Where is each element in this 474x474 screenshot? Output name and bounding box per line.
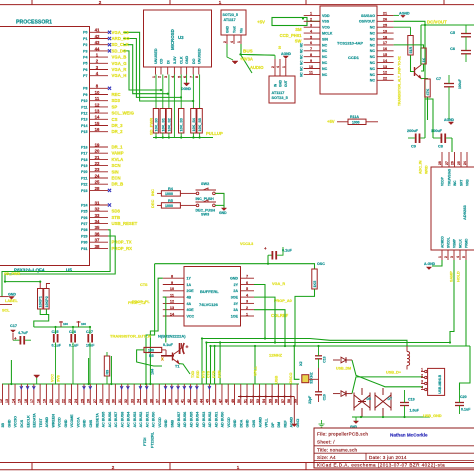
svg-text:NC: NC — [370, 43, 376, 47]
FT232RL pin 30 AC BUS7 — [114, 384, 116, 405]
svg-text:VCG: VCG — [322, 26, 330, 30]
svg-text:AGND: AGND — [258, 417, 262, 428]
svg-text:GND: GND — [230, 277, 238, 281]
svg-text:CTS: CTS — [207, 370, 211, 378]
svg-text:21: 21 — [95, 155, 100, 160]
TVS diode D7 — [375, 393, 391, 411]
svg-text:TCS1310-4AP: TCS1310-4AP — [337, 41, 363, 46]
svg-text:KiCad E.D.A. eeschema (2013-0: KiCad E.D.A. eeschema (2013-07-07 BZR 40… — [317, 462, 445, 467]
wire SW2/SW3 to ground — [215, 193, 224, 205]
svg-text:GND: GND — [83, 419, 87, 427]
svg-text:NC: NC — [322, 55, 328, 59]
svg-text:DP: DP — [271, 422, 275, 428]
push button SW3 DEC_PUSH — [196, 204, 199, 207]
processor U5 body P8X32A-LQF44 — [0, 27, 90, 266]
svg-text:47K: 47K — [426, 88, 430, 95]
svg-text:GND: GND — [233, 419, 237, 427]
svg-text:1: 1 — [246, 312, 248, 316]
wire vertical drop x=255 — [254, 346, 256, 384]
svg-text:CD: CD — [160, 58, 164, 64]
capacitor C13 22pF — [315, 355, 322, 357]
svg-text:P15: P15 — [81, 130, 87, 134]
svg-text:AC BUS3: AC BUS3 — [133, 412, 137, 428]
svg-text:10K_S5: 10K_S5 — [198, 118, 202, 131]
svg-text:9: 9 — [310, 59, 312, 63]
svg-text:INC: INC — [453, 180, 457, 186]
svg-text:3V3: 3V3 — [57, 375, 61, 382]
svg-text:2: 2 — [157, 76, 161, 78]
FT232RL pin 35 AC BUS1 — [146, 384, 148, 405]
FT232RL pin 59 OSCI — [296, 384, 298, 405]
wire from processor pin y=50.9 to microSD column x=161.0 — [123, 51, 161, 90]
svg-text:VDD: VDD — [322, 14, 330, 18]
svg-text:AGND: AGND — [45, 417, 49, 428]
svg-text:3.3V: 3.3V — [173, 56, 177, 64]
svg-text:CCD1: CCD1 — [348, 55, 360, 60]
wire vertical drop x=220.1 — [219, 343, 221, 385]
svg-text:16: 16 — [95, 127, 100, 132]
svg-text:NC: NC — [370, 73, 376, 77]
svg-text:P1: P1 — [83, 37, 87, 41]
svg-text:P13: P13 — [81, 118, 87, 122]
ADC top pin INC — [454, 152, 456, 167]
svg-text:2: 2 — [246, 306, 248, 310]
svg-text:LABEL: LABEL — [5, 299, 18, 303]
wire C17 up flag — [12, 333, 14, 340]
svg-text:42: 42 — [187, 399, 191, 403]
svg-text:AC BUS1: AC BUS1 — [145, 412, 149, 428]
svg-text:NC: NC — [370, 37, 376, 41]
svg-text:SRT: SRT — [460, 180, 464, 186]
svg-text:38: 38 — [95, 244, 100, 249]
svg-text:2: 2 — [444, 256, 448, 258]
svg-text:P29: P29 — [81, 234, 87, 238]
svg-text:11: 11 — [95, 96, 100, 101]
svg-text:C6: C6 — [450, 47, 455, 51]
svg-text:BUS: BUS — [243, 49, 253, 54]
svg-text:25: 25 — [383, 24, 387, 28]
FT232RL pin 24 VCCA — [77, 384, 79, 405]
svg-text:PRMD: PRMD — [465, 238, 469, 248]
FT232RL pin 36 AC BUS0 — [152, 384, 154, 405]
svg-text:PROCESSOR1: PROCESSOR1 — [16, 20, 52, 26]
svg-text:45: 45 — [206, 399, 210, 403]
svg-text:ECN: ECN — [112, 176, 121, 181]
svg-text:RTS: RTS — [202, 370, 206, 378]
wire from P28 to left routing — [2, 230, 110, 297]
svg-text:54: 54 — [262, 399, 266, 403]
svg-text:COLREF: COLREF — [271, 313, 289, 318]
pull-up resistor R20 10K — [155, 75, 157, 109]
FT232RL pin 17 EEDATA — [33, 384, 35, 405]
svg-text:FTDI: FTDI — [143, 438, 147, 446]
svg-text:17: 17 — [383, 41, 387, 45]
svg-text:ARD_DO: ARD_DO — [112, 36, 131, 41]
pull-up resistor R21 10K — [162, 75, 164, 109]
wire from processor pin y=44.7 to microSD column x=167.7 — [123, 45, 168, 94]
svg-text:2Y: 2Y — [234, 283, 239, 287]
TVS diode D6 — [354, 393, 370, 411]
svg-text:0.1uF: 0.1uF — [163, 343, 174, 347]
ground flag bottom middle — [292, 424, 297, 427]
wire buffer right pin4 step — [254, 297, 275, 342]
svg-text:P6: P6 — [83, 68, 87, 72]
svg-text:DR_2: DR_2 — [112, 129, 124, 134]
svg-text:D6: D6 — [367, 397, 371, 401]
wire USB data diagonal 1 — [352, 360, 423, 387]
svg-text:P31: P31 — [81, 247, 87, 251]
ground symbol above title block — [319, 420, 325, 427]
svg-text:C20: C20 — [460, 395, 467, 399]
svg-text:OUT: OUT — [284, 80, 288, 87]
svg-text:100: 100 — [81, 322, 86, 326]
svg-text:NC: NC — [299, 48, 303, 53]
svg-text:P27: P27 — [81, 222, 87, 226]
wire USB data diagonal 2 — [352, 377, 423, 394]
svg-text:+: + — [186, 345, 189, 351]
svg-text:AC BUS0: AC BUS0 — [152, 412, 156, 428]
svg-text:2A: 2A — [233, 289, 238, 293]
svg-text:VGA_B: VGA_B — [112, 55, 127, 60]
svg-text:25: 25 — [95, 180, 100, 185]
svg-text:100uF: 100uF — [458, 79, 462, 89]
resistor R9 vertical — [104, 356, 109, 376]
svg-text:33: 33 — [130, 399, 134, 403]
svg-text:20: 20 — [49, 399, 53, 403]
inductor L2 — [407, 346, 410, 366]
svg-text:23: 23 — [68, 399, 72, 403]
svg-text:10KP1: 10KP1 — [39, 296, 43, 307]
svg-text:1: 1 — [438, 256, 442, 258]
svg-text:SD8: SD8 — [112, 209, 121, 214]
resistor R1 10K — [39, 282, 41, 289]
ADC bottom pin NCLK — [459, 250, 461, 260]
svg-text:43: 43 — [95, 40, 100, 45]
svg-text:DO: DO — [192, 58, 196, 64]
voltage regulator U2 AT1117 body — [269, 76, 295, 103]
svg-text:SCN: SCN — [112, 163, 121, 168]
svg-text:1: 1 — [237, 41, 241, 43]
svg-text:INC: INC — [150, 189, 155, 196]
svg-text:AC BUS6: AC BUS6 — [108, 412, 112, 428]
regulator U2 pin IN — [274, 59, 276, 76]
small diode D5 — [333, 393, 340, 395]
wire inductor top — [405, 340, 407, 346]
svg-text:P4: P4 — [83, 56, 87, 60]
svg-text:P7: P7 — [83, 74, 87, 78]
svg-text:1000: 1000 — [165, 204, 173, 208]
svg-text:D7: D7 — [388, 397, 392, 401]
wire to R12 — [268, 264, 315, 269]
svg-text:P28: P28 — [81, 228, 87, 232]
junction dots on red net — [240, 396, 242, 398]
svg-text:VSS: VSS — [322, 20, 330, 24]
svg-text:CTS: CTS — [140, 283, 148, 287]
resistor R12 1K5 — [312, 269, 317, 289]
USB interface chip FT232RL main bus wire — [2, 383, 299, 385]
svg-text:C25: C25 — [52, 330, 59, 334]
svg-text:C26: C26 — [69, 330, 76, 334]
svg-text:BUFFERL: BUFFERL — [200, 289, 219, 294]
wire vertical drop x=210.5 — [210, 346, 212, 384]
svg-text:AD BUS6: AD BUS6 — [183, 412, 187, 428]
svg-text:4.7uF: 4.7uF — [18, 331, 29, 335]
svg-text:P10: P10 — [81, 99, 87, 103]
svg-text:4: 4 — [421, 385, 423, 389]
svg-text:26: 26 — [383, 18, 387, 22]
ADC top pin VRB — [466, 152, 468, 167]
title block row line 2 — [314, 452, 474, 454]
svg-text:SW3: SW3 — [201, 212, 209, 216]
FT232RL pin 29 AC BUS6 — [108, 384, 110, 405]
svg-text:19: 19 — [43, 399, 47, 403]
sheet top border tick x=306 — [305, 0, 307, 5]
svg-text:100: 100 — [148, 349, 154, 353]
svg-text:36: 36 — [95, 231, 100, 236]
no-connect mark on P1 — [108, 37, 111, 40]
svg-text:VCC: VCC — [187, 314, 195, 318]
svg-text:AGND: AGND — [290, 417, 294, 428]
svg-text:CNS: CNS — [252, 419, 256, 427]
DGND flag on microSD GND pin — [186, 75, 188, 84]
svg-text:C13: C13 — [323, 356, 327, 362]
wire red horizontal through FT pins — [238, 396, 294, 398]
svg-text:P18: P18 — [81, 158, 87, 162]
svg-text:DGND: DGND — [181, 87, 192, 91]
svg-text:5: 5 — [246, 287, 248, 291]
svg-text:SW2: SW2 — [201, 182, 209, 186]
svg-text:DM: DM — [277, 422, 281, 428]
svg-text:74LVC126: 74LVC126 — [199, 302, 219, 307]
USB connector pin 2 — [425, 376, 427, 378]
svg-text:NC: NC — [299, 54, 303, 59]
wire stub left edge 2 — [0, 304, 12, 306]
svg-text:OSC: OSC — [317, 262, 325, 266]
svg-text:AD9283: AD9283 — [462, 205, 467, 220]
svg-text:10K_S3: 10K_S3 — [180, 118, 184, 131]
FT232RL pin 44 AD BUS3 — [202, 384, 204, 405]
resistor R17 — [394, 45, 424, 48]
svg-text:10KP2: 10KP2 — [45, 296, 49, 307]
svg-text:P16: P16 — [81, 145, 87, 149]
sheet top border tick x=32 — [31, 0, 33, 5]
svg-text:18: 18 — [36, 399, 40, 403]
svg-text:GND: GND — [7, 419, 11, 427]
svg-text:AC BUS4: AC BUS4 — [127, 412, 131, 428]
svg-text:13: 13 — [170, 306, 174, 310]
wire long net y=342.5 — [206, 342, 450, 344]
wire T1 collector up to cap — [179, 343, 182, 351]
svg-text:31: 31 — [95, 200, 100, 205]
FT232RL pin 49 GND — [233, 384, 235, 405]
svg-text:23: 23 — [95, 167, 100, 172]
svg-text:+3V3A: +3V3A — [240, 57, 253, 62]
svg-text:AT1117: AT1117 — [272, 91, 285, 95]
svg-text:SCL: SCL — [2, 309, 10, 313]
svg-text:VCCA: VCCA — [76, 417, 80, 428]
svg-text:22: 22 — [95, 161, 100, 166]
svg-text:AT1117: AT1117 — [224, 18, 236, 22]
svg-text:51: 51 — [243, 399, 247, 403]
svg-text:INC_PUSH: INC_PUSH — [196, 197, 215, 201]
svg-text:4: 4 — [456, 256, 460, 258]
svg-text:10K_S2: 10K_S2 — [167, 118, 171, 131]
wire R18 bottom down — [427, 97, 429, 120]
svg-text:34: 34 — [137, 399, 141, 403]
sheet top border tick x=444 — [443, 0, 445, 5]
wire crystal right — [309, 368, 319, 379]
svg-text:AUDIO: AUDIO — [250, 65, 264, 70]
wire vertical drop x=202 — [201, 339, 203, 385]
svg-text:AD BUS2: AD BUS2 — [208, 412, 212, 428]
svg-text:P9: P9 — [83, 93, 87, 97]
svg-text:P24: P24 — [81, 203, 87, 207]
svg-text:VGA_G: VGA_G — [112, 61, 128, 66]
svg-text:36: 36 — [149, 399, 153, 403]
svg-text:7: 7 — [310, 47, 312, 51]
svg-text:SCL_WEIG: SCL_WEIG — [112, 111, 135, 116]
svg-text:48: 48 — [225, 399, 229, 403]
svg-text:24: 24 — [74, 399, 78, 403]
svg-text:PULLUP: PULLUP — [206, 131, 223, 136]
svg-text:R11A: R11A — [350, 115, 359, 119]
svg-text:15: 15 — [383, 53, 387, 57]
svg-text:44: 44 — [199, 399, 203, 403]
ground flag on bus — [34, 375, 40, 378]
svg-text:10: 10 — [95, 90, 100, 95]
no-connect mark on P8 — [108, 87, 111, 90]
svg-text:RXD: RXD — [196, 370, 200, 378]
svg-text:VCC3.3: VCC3.3 — [240, 242, 253, 246]
svg-text:22pF: 22pF — [308, 396, 312, 404]
svg-text:STB: STB — [112, 215, 121, 220]
svg-text:49: 49 — [231, 399, 235, 403]
svg-text:USB: USB — [275, 375, 279, 383]
USB connector pin 1 — [425, 370, 427, 372]
FT232RL pin 47 AD BUS0 — [221, 384, 223, 405]
svg-text:DTR: DTR — [212, 370, 216, 378]
wire ADC pin5 down — [466, 260, 470, 346]
svg-text:P21: P21 — [81, 176, 87, 180]
svg-text:8: 8 — [171, 275, 173, 279]
regulator U2 pin GND — [279, 59, 281, 76]
svg-text:27: 27 — [93, 399, 97, 403]
svg-text:C10: C10 — [323, 394, 327, 400]
svg-text:AC BUS7: AC BUS7 — [114, 412, 118, 428]
FT232RL pin 43 AD BUS4 — [196, 384, 198, 405]
svg-text:AD BUS0: AD BUS0 — [221, 412, 225, 428]
svg-text:4: 4 — [230, 41, 234, 43]
svg-text:NC: NC — [370, 32, 376, 36]
svg-text:35: 35 — [143, 399, 147, 403]
svg-text:1K: 1K — [422, 57, 426, 62]
ADC top pin SRT — [460, 152, 462, 167]
wire crystal branch — [294, 346, 299, 379]
FT232RL pin 18 TEST — [39, 384, 41, 405]
svg-text:P11: P11 — [81, 105, 87, 109]
svg-text:VCCIO: VCCIO — [14, 416, 18, 428]
svg-text:VPLL: VPLL — [265, 418, 269, 428]
FT232RL pin 12 3B — [2, 384, 4, 405]
svg-text:VCOME: VCOME — [70, 414, 74, 428]
svg-text:1N4: 1N4 — [151, 369, 155, 375]
FT232RL pin 51 GND — [246, 384, 248, 405]
USB connector pin 3 — [425, 382, 427, 384]
svg-text:P20: P20 — [81, 170, 87, 174]
FT232RL pin 15 DCS — [20, 384, 22, 405]
sheet top border tick x=170 — [169, 0, 171, 5]
svg-text:10K_S4: 10K_S4 — [192, 117, 196, 131]
svg-text:6: 6 — [246, 281, 248, 285]
svg-text:52: 52 — [250, 399, 254, 403]
svg-text:1A: 1A — [187, 283, 192, 287]
svg-text:SD_PWR: SD_PWR — [4, 272, 21, 276]
svg-text:VDDP: VDDP — [441, 176, 445, 186]
svg-text:S: S — [278, 45, 281, 50]
wire buffer pin4 left — [163, 297, 166, 342]
svg-text:17: 17 — [30, 399, 34, 403]
FT232RL pin 16 EECLK — [27, 384, 29, 405]
svg-text:NC: NC — [299, 66, 303, 71]
FT232RL pin 34 AC BUS2 — [139, 384, 141, 405]
ADC bottom pin VSMP — [453, 250, 455, 260]
svg-text:DR_1: DR_1 — [112, 145, 124, 150]
svg-text:P26: P26 — [81, 216, 87, 220]
svg-text:VGA_R: VGA_R — [112, 67, 128, 72]
wire ADC pin3 down to horizontal net — [450, 260, 454, 343]
svg-text:ADC_IN: ADC_IN — [419, 160, 423, 174]
svg-text:UNUSED: UNUSED — [197, 48, 201, 64]
no-connect mark on P24 — [108, 203, 111, 206]
wire bus rise x=11.4 — [10, 360, 12, 384]
sheet bottom border tick x=32 — [31, 463, 33, 470]
wire stub left edge 1 — [0, 296, 9, 298]
svg-text:USB_GND: USB_GND — [423, 414, 442, 418]
FT232RL pin 42 AD BUS5 — [190, 384, 192, 405]
svg-text:USB_RESET: USB_RESET — [112, 221, 138, 226]
wire long net y=338.5 — [202, 339, 405, 341]
svg-text:10nF: 10nF — [86, 344, 95, 348]
svg-text:R5: R5 — [149, 354, 154, 358]
svg-text:VRB: VRB — [466, 179, 470, 186]
sheet bottom border tick x=306 — [305, 463, 307, 470]
ADC bottom pin PRMD — [465, 250, 467, 260]
svg-text:SOT23_5: SOT23_5 — [272, 96, 288, 100]
wire bus rise x=111.4 — [110, 356, 112, 384]
svg-text:44: 44 — [95, 46, 100, 51]
svg-text:5: 5 — [310, 35, 312, 39]
polarity mark 1 — [59, 321, 63, 327]
buffer U4 74LVC126 body — [184, 267, 241, 327]
FT232RL pin 56 DM — [277, 384, 279, 405]
svg-text:VCCD: VCCD — [58, 417, 62, 428]
svg-text:SM: SM — [295, 27, 302, 32]
svg-text:A-GND: A-GND — [424, 262, 436, 266]
svg-text:0.1uF: 0.1uF — [282, 249, 293, 253]
svg-text:REF: REF — [283, 420, 287, 428]
svg-text:10K_S1: 10K_S1 — [161, 118, 165, 131]
svg-text:MCLK: MCLK — [322, 32, 333, 36]
svg-text:P25: P25 — [81, 210, 87, 214]
svg-text:3A: 3A — [233, 308, 238, 312]
ground flag below regulator U1 — [232, 61, 238, 64]
svg-text:VSMP: VSMP — [453, 238, 457, 248]
svg-text:3: 3 — [164, 76, 168, 78]
AGND flag on CCD1 SS/GAO — [394, 14, 399, 16]
wire R17 bottom to emitter node — [421, 64, 424, 71]
FT232RL pin 55 DP — [271, 384, 273, 405]
svg-text:13: 13 — [383, 65, 387, 69]
